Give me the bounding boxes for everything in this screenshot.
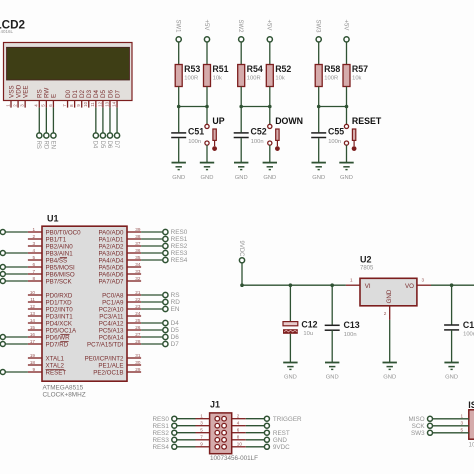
- svg-text:GND: GND: [235, 175, 248, 181]
- svg-text:3: 3: [32, 241, 35, 246]
- svg-text:D1: D1: [72, 89, 79, 98]
- svg-text:PC0/A8: PC0/A8: [102, 292, 124, 299]
- svg-text:6: 6: [32, 262, 35, 267]
- svg-text:GND: GND: [273, 437, 287, 444]
- svg-text:7: 7: [32, 269, 35, 274]
- svg-text:CLOCK+8MHZ: CLOCK+8MHZ: [43, 392, 86, 399]
- svg-text:EN: EN: [49, 141, 55, 149]
- svg-text:SW2: SW2: [237, 20, 243, 34]
- svg-text:33: 33: [135, 269, 141, 274]
- svg-text:24: 24: [135, 311, 141, 316]
- svg-text:PB4/SS: PB4/SS: [46, 257, 68, 264]
- svg-text:RS: RS: [171, 292, 180, 299]
- svg-text:30: 30: [135, 360, 141, 365]
- svg-text:+5V: +5V: [203, 20, 209, 31]
- svg-text:100n: 100n: [188, 139, 201, 145]
- svg-text:VEE: VEE: [22, 85, 29, 98]
- svg-text:RD: RD: [171, 299, 181, 306]
- svg-text:GND: GND: [340, 175, 353, 181]
- svg-text:C14: C14: [463, 320, 474, 330]
- svg-text:PE1/ALE: PE1/ALE: [98, 362, 123, 369]
- svg-text:100n: 100n: [463, 332, 474, 338]
- svg-text:GND: GND: [312, 175, 325, 181]
- svg-text:4: 4: [32, 248, 35, 253]
- svg-text:SW1: SW1: [175, 20, 181, 34]
- svg-text:25: 25: [135, 318, 141, 323]
- svg-text:39: 39: [135, 227, 141, 232]
- svg-text:100R: 100R: [247, 76, 261, 82]
- svg-text:R54: R54: [247, 64, 263, 74]
- svg-text:35: 35: [135, 255, 141, 260]
- svg-text:U1: U1: [47, 214, 59, 224]
- svg-text:PD3/INT1: PD3/INT1: [46, 313, 74, 320]
- svg-text:C52: C52: [251, 127, 267, 137]
- svg-text:10: 10: [30, 290, 36, 295]
- svg-text:R51: R51: [212, 64, 228, 74]
- svg-text:D4: D4: [171, 320, 180, 327]
- svg-text:PB7/SCK: PB7/SCK: [46, 278, 73, 285]
- svg-text:PD5/OC1A: PD5/OC1A: [46, 327, 77, 334]
- svg-text:38: 38: [135, 234, 141, 239]
- svg-text:C51: C51: [188, 127, 204, 137]
- svg-text:UP: UP: [212, 116, 224, 126]
- svg-text:TRIGGER: TRIGGER: [273, 416, 302, 423]
- svg-text:7805: 7805: [360, 266, 374, 272]
- svg-text:9: 9: [32, 367, 35, 372]
- svg-text:36: 36: [135, 248, 141, 253]
- svg-text:3: 3: [422, 277, 425, 282]
- svg-text:PD6/WR: PD6/WR: [46, 334, 71, 341]
- svg-text:5: 5: [200, 427, 203, 432]
- svg-text:D3: D3: [86, 89, 93, 98]
- svg-text:14: 14: [111, 101, 116, 106]
- svg-text:RD: RD: [42, 141, 48, 150]
- svg-text:RES1: RES1: [171, 236, 188, 243]
- svg-text:29: 29: [135, 367, 141, 372]
- svg-text:SW3: SW3: [411, 430, 425, 437]
- svg-text:2: 2: [237, 413, 240, 418]
- svg-text:6: 6: [237, 427, 240, 432]
- svg-text:37: 37: [135, 241, 141, 246]
- svg-text:GND: GND: [386, 289, 393, 303]
- svg-text:100R: 100R: [184, 76, 198, 82]
- svg-text:10: 10: [83, 101, 88, 106]
- svg-text:C55: C55: [328, 127, 344, 137]
- svg-text:VSS: VSS: [8, 85, 15, 98]
- svg-text:GND: GND: [383, 375, 396, 381]
- svg-text:RES0: RES0: [152, 416, 169, 423]
- svg-text:PA4/AD4: PA4/AD4: [99, 257, 125, 264]
- svg-text:100n: 100n: [251, 139, 264, 145]
- svg-text:+5V: +5V: [342, 20, 348, 31]
- svg-text:D5: D5: [171, 327, 180, 334]
- svg-text:D2: D2: [79, 89, 86, 98]
- svg-text:R53: R53: [184, 64, 200, 74]
- svg-text:32: 32: [135, 276, 141, 281]
- svg-text:PD0/RXD: PD0/RXD: [46, 292, 73, 299]
- svg-text:D5: D5: [99, 141, 105, 149]
- svg-text:PB6/MISO: PB6/MISO: [46, 271, 75, 278]
- svg-text:ISP: ISP: [468, 400, 474, 410]
- svg-text:RES4: RES4: [152, 444, 169, 451]
- svg-text:D4: D4: [92, 141, 98, 149]
- svg-text:21: 21: [135, 290, 141, 295]
- svg-text:PB1/T1: PB1/T1: [46, 236, 67, 243]
- svg-text:27: 27: [135, 332, 141, 337]
- svg-text:4: 4: [237, 420, 240, 425]
- svg-text:PC3/A11: PC3/A11: [99, 313, 124, 320]
- svg-text:DOWN: DOWN: [275, 116, 303, 126]
- svg-text:7: 7: [200, 434, 203, 439]
- svg-text:28: 28: [135, 339, 141, 344]
- svg-text:XTAL1: XTAL1: [46, 355, 65, 362]
- svg-text:MISO: MISO: [409, 416, 425, 423]
- svg-text:16: 16: [30, 332, 36, 337]
- svg-text:GND: GND: [445, 375, 458, 381]
- svg-text:D4: D4: [93, 89, 100, 98]
- svg-text:2: 2: [384, 311, 387, 316]
- svg-text:PB0/T0/OC0: PB0/T0/OC0: [46, 229, 82, 236]
- svg-text:PA3/AD3: PA3/AD3: [99, 250, 125, 257]
- svg-text:10k: 10k: [352, 76, 361, 82]
- svg-text:PE2/OC1B: PE2/OC1B: [93, 369, 123, 376]
- svg-text:3: 3: [200, 420, 203, 425]
- svg-text:RES0: RES0: [171, 229, 188, 236]
- svg-text:34: 34: [135, 262, 141, 267]
- svg-text:XTAL2: XTAL2: [46, 362, 65, 369]
- svg-text:PE0/ICP/INT2: PE0/ICP/INT2: [85, 355, 124, 362]
- svg-text:PC5/A13: PC5/A13: [99, 327, 124, 334]
- svg-text:PC7/A15/TDI: PC7/A15/TDI: [87, 341, 124, 348]
- svg-text:D6: D6: [171, 334, 180, 341]
- svg-text:PB5/MOSI: PB5/MOSI: [46, 264, 76, 271]
- svg-text:9VDC: 9VDC: [273, 444, 290, 451]
- svg-text:5: 5: [460, 427, 463, 432]
- svg-text:10073456-001LF: 10073456-001LF: [210, 455, 258, 462]
- svg-text:GND: GND: [263, 175, 276, 181]
- svg-text:D7: D7: [113, 141, 119, 149]
- svg-text:12: 12: [97, 101, 102, 106]
- svg-text:D6: D6: [107, 89, 114, 98]
- svg-text:100n: 100n: [328, 139, 341, 145]
- svg-text:VO: VO: [405, 283, 414, 290]
- svg-text:ATMEGA8515: ATMEGA8515: [43, 384, 84, 391]
- svg-text:RES1: RES1: [152, 423, 169, 430]
- svg-text:RES4: RES4: [171, 257, 188, 264]
- svg-text:PA6/AD6: PA6/AD6: [99, 271, 125, 278]
- svg-text:100R: 100R: [324, 76, 338, 82]
- svg-text:26: 26: [135, 325, 141, 330]
- svg-text:RESET: RESET: [352, 116, 382, 126]
- svg-text:PC4/A12: PC4/A12: [99, 320, 124, 327]
- svg-text:1: 1: [350, 277, 353, 282]
- svg-text:8: 8: [237, 434, 240, 439]
- svg-text:10k: 10k: [213, 76, 222, 82]
- svg-text:14: 14: [30, 318, 36, 323]
- svg-text:D0: D0: [65, 89, 72, 98]
- svg-text:PB2/AIN0: PB2/AIN0: [46, 243, 74, 250]
- svg-text:REST: REST: [273, 430, 290, 437]
- svg-text:17: 17: [30, 339, 36, 344]
- svg-text:GND: GND: [326, 375, 339, 381]
- svg-text:RES3: RES3: [171, 250, 188, 257]
- svg-text:RES3: RES3: [152, 437, 169, 444]
- svg-text:5: 5: [32, 255, 35, 260]
- svg-text:18: 18: [30, 360, 36, 365]
- svg-text:RES2: RES2: [171, 243, 188, 250]
- svg-text:C13: C13: [344, 320, 360, 330]
- svg-text:D7: D7: [171, 341, 180, 348]
- svg-text:VDD: VDD: [15, 84, 22, 98]
- svg-text:9VDC: 9VDC: [238, 241, 244, 258]
- svg-text:10: 10: [237, 441, 243, 446]
- svg-text:PA5/AD5: PA5/AD5: [99, 264, 125, 271]
- svg-text:D7: D7: [114, 89, 121, 98]
- svg-text:11: 11: [90, 102, 95, 107]
- svg-text:22: 22: [135, 297, 141, 302]
- svg-text:R58: R58: [324, 64, 340, 74]
- svg-text:PA1/AD1: PA1/AD1: [99, 236, 125, 243]
- svg-text:VI: VI: [365, 283, 371, 290]
- svg-text:9: 9: [200, 441, 203, 446]
- svg-text:11: 11: [30, 297, 35, 302]
- svg-text:13: 13: [30, 311, 36, 316]
- svg-text:RS: RS: [35, 141, 41, 149]
- svg-text:RESET: RESET: [46, 369, 67, 376]
- svg-text:1: 1: [32, 227, 35, 232]
- svg-text:1: 1: [200, 413, 203, 418]
- svg-text:RW: RW: [44, 88, 51, 98]
- svg-text:E: E: [51, 94, 58, 98]
- svg-text:PB3/AIN1: PB3/AIN1: [46, 250, 74, 257]
- svg-text:PD7/RD: PD7/RD: [46, 341, 69, 348]
- svg-text:U2: U2: [360, 254, 372, 264]
- svg-text:3: 3: [460, 420, 463, 425]
- svg-text:SCK: SCK: [412, 423, 426, 430]
- svg-text:12: 12: [30, 304, 36, 309]
- svg-text:15: 15: [30, 325, 36, 330]
- svg-text:PC6/A14: PC6/A14: [99, 334, 124, 341]
- svg-text:23: 23: [135, 304, 141, 309]
- svg-text:+5V: +5V: [266, 20, 272, 31]
- svg-text:PA0/AD0: PA0/AD0: [99, 229, 125, 236]
- svg-text:10u: 10u: [303, 331, 313, 337]
- svg-text:4016L: 4016L: [1, 29, 14, 34]
- svg-text:R57: R57: [352, 64, 368, 74]
- svg-text:13: 13: [104, 101, 109, 106]
- svg-text:D6: D6: [106, 141, 112, 149]
- svg-text:8: 8: [32, 276, 35, 281]
- svg-text:10k: 10k: [275, 76, 284, 82]
- svg-text:J1: J1: [210, 400, 220, 410]
- svg-text:D5: D5: [100, 89, 107, 98]
- svg-text:PA2/AD2: PA2/AD2: [99, 243, 125, 250]
- svg-text:GND: GND: [201, 175, 214, 181]
- svg-text:R52: R52: [275, 64, 291, 74]
- svg-text:SW3: SW3: [315, 20, 321, 34]
- svg-text:PC2/A10: PC2/A10: [99, 306, 124, 313]
- svg-text:C12: C12: [301, 319, 317, 329]
- svg-text:19: 19: [30, 353, 36, 358]
- svg-text:RES2: RES2: [152, 430, 169, 437]
- svg-text:PC1/A9: PC1/A9: [102, 299, 124, 306]
- svg-text:GND: GND: [284, 375, 297, 381]
- svg-text:31: 31: [135, 353, 141, 358]
- svg-text:2: 2: [32, 234, 35, 239]
- svg-text:PD1/TXD: PD1/TXD: [46, 299, 73, 306]
- svg-text:GND: GND: [172, 175, 185, 181]
- svg-text:PA7/AD7: PA7/AD7: [99, 278, 125, 285]
- svg-text:100n: 100n: [344, 332, 357, 338]
- svg-text:EN: EN: [171, 306, 180, 313]
- svg-text:PD2/INT0: PD2/INT0: [46, 306, 74, 313]
- svg-text:RS: RS: [37, 89, 44, 98]
- svg-text:1: 1: [460, 413, 463, 418]
- svg-text:10073456: 10073456: [469, 442, 474, 449]
- svg-text:PD4/XCK: PD4/XCK: [46, 320, 73, 327]
